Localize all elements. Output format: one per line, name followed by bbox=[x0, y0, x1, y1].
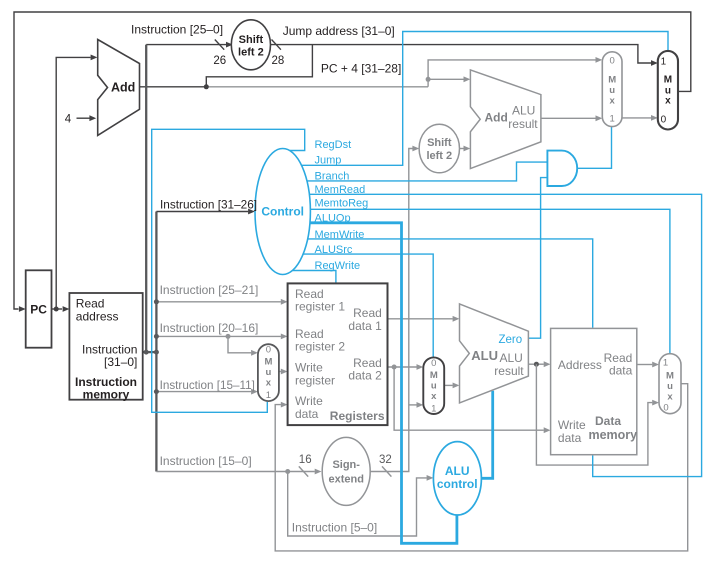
svg-text:extend: extend bbox=[328, 474, 363, 486]
svg-text:0: 0 bbox=[661, 114, 667, 125]
svg-text:address: address bbox=[76, 309, 119, 323]
svg-text:1: 1 bbox=[663, 358, 668, 369]
svg-text:ALU: ALU bbox=[471, 348, 498, 363]
wire write-back from MemtoReg mux output to registers write data bbox=[275, 384, 688, 551]
svg-text:ALU: ALU bbox=[512, 103, 535, 117]
svg-text:MemtoReg: MemtoReg bbox=[315, 198, 369, 210]
svg-text:Shift: Shift bbox=[427, 137, 452, 149]
wire sign-extend output to ALUSrc mux and shift-left-2 bbox=[370, 149, 412, 472]
bit-width slash 28 bbox=[272, 40, 281, 50]
svg-text:Branch: Branch bbox=[315, 170, 350, 182]
svg-text:28: 28 bbox=[272, 55, 285, 67]
svg-text:Instruction [5–0]: Instruction [5–0] bbox=[292, 521, 377, 535]
mux MemtoReg (1/0) bbox=[659, 354, 681, 414]
wire instruction [15-11] into RegDst mux input 1 bbox=[156, 391, 251, 393]
svg-text:ALU: ALU bbox=[500, 351, 523, 365]
wire instruction [25-0] from bus to shift-left-2 bbox=[146, 44, 232, 46]
svg-text:26: 26 bbox=[213, 55, 226, 67]
svg-text:Instruction [15–0]: Instruction [15–0] bbox=[160, 454, 252, 468]
wire MemWrite signal from Control to data memory bbox=[306, 239, 593, 328]
svg-text:M: M bbox=[264, 356, 272, 367]
svg-text:x: x bbox=[266, 377, 272, 388]
svg-text:data: data bbox=[295, 407, 319, 421]
wire PC output to instruction memory read address bbox=[52, 308, 63, 310]
svg-text:data 2: data 2 bbox=[348, 369, 382, 383]
wire instruction bus vertical B carrying instruction fields bbox=[155, 212, 157, 472]
svg-text:32: 32 bbox=[379, 454, 392, 466]
svg-text:ALUOp: ALUOp bbox=[315, 212, 351, 224]
svg-text:register 2: register 2 bbox=[295, 340, 345, 354]
mux RegDst (0/1) bbox=[258, 344, 279, 401]
node instruction output junctions bbox=[144, 350, 149, 355]
svg-text:M: M bbox=[664, 75, 672, 86]
svg-text:data: data bbox=[558, 431, 582, 445]
svg-text:MemWrite: MemWrite bbox=[315, 229, 365, 241]
wire instruction bus vertical A carrying instruction [25-0] bbox=[145, 45, 147, 353]
wire instruction [20-16] branch into RegDst mux input 0 bbox=[228, 336, 251, 352]
svg-text:data: data bbox=[609, 364, 633, 378]
svg-text:left 2: left 2 bbox=[426, 150, 452, 162]
wire PC+4 into branch adder top input bbox=[428, 78, 463, 80]
node instruction [15-0] junction for [5-0] branch bbox=[285, 469, 290, 474]
bit-width slash 16 bbox=[299, 466, 308, 476]
wire PC+4 [31-28] tap up to jump address line bbox=[206, 45, 312, 87]
svg-text:1: 1 bbox=[266, 390, 271, 401]
svg-text:u: u bbox=[609, 85, 615, 96]
svg-text:Instruction [15–11]: Instruction [15–11] bbox=[160, 379, 255, 392]
svg-text:Add: Add bbox=[111, 80, 135, 94]
svg-text:Instruction [25–0]: Instruction [25–0] bbox=[131, 23, 223, 37]
ALU control unit bbox=[433, 442, 481, 515]
svg-text:M: M bbox=[666, 370, 674, 381]
shift left 2 unit (jump) bbox=[231, 20, 270, 70]
svg-text:ALUSrc: ALUSrc bbox=[315, 244, 353, 256]
mux branch (0/1) bbox=[602, 52, 622, 127]
wire sign-extend branch into ALUSrc mux input 1 bbox=[409, 404, 417, 406]
shift left 2 unit (branch) bbox=[419, 124, 459, 173]
svg-text:control: control bbox=[437, 477, 478, 491]
wire instruction [25-21] to read register 1 bbox=[156, 301, 281, 303]
svg-text:result: result bbox=[508, 117, 538, 131]
wire PC feedback loop from jump mux output around top-left into PC bbox=[14, 12, 691, 309]
svg-text:PC: PC bbox=[30, 303, 47, 317]
svg-text:Data: Data bbox=[595, 414, 621, 428]
wire Add output PC+4 line bbox=[140, 86, 207, 88]
wire shift-left-2 output into branch adder bottom input bbox=[459, 148, 463, 150]
wire branch mux output into jump mux input 0 bbox=[622, 117, 651, 119]
svg-text:RegDst: RegDst bbox=[315, 139, 352, 151]
node PC+4 branch junction bbox=[426, 77, 431, 82]
wire RegDst signal from Control to RegDst mux bbox=[152, 129, 305, 412]
svg-text:u: u bbox=[667, 381, 673, 392]
wire jump address [31-0] from shift-left-2 to jump mux input 1 bbox=[270, 45, 651, 63]
wire PC+4 gray segment up to branch mux input 0 bbox=[428, 60, 595, 87]
block data memory bbox=[551, 328, 637, 454]
svg-text:Jump address [31–0]: Jump address [31–0] bbox=[283, 24, 395, 38]
svg-text:memory: memory bbox=[588, 428, 637, 442]
wire instruction [15-0] to sign extend bbox=[156, 471, 314, 473]
svg-text:0: 0 bbox=[610, 56, 615, 67]
wire ALU result into data memory address bbox=[528, 363, 543, 365]
svg-text:PC + 4 [31–28]: PC + 4 [31–28] bbox=[321, 62, 401, 76]
adder Add (PC+4) bbox=[98, 40, 140, 136]
svg-text:Shift: Shift bbox=[239, 34, 264, 46]
bit-width slash 26 bbox=[215, 40, 224, 50]
svg-text:x: x bbox=[431, 391, 437, 402]
wire ALUSrc signal from Control to ALUSrc mux select bbox=[301, 254, 433, 357]
svg-text:1: 1 bbox=[661, 57, 667, 68]
svg-text:x: x bbox=[667, 391, 673, 402]
svg-text:register: register bbox=[295, 373, 335, 387]
svg-text:data 1: data 1 bbox=[348, 319, 382, 333]
register PC bbox=[26, 270, 52, 347]
AND gate branch bbox=[547, 151, 577, 186]
wire read data 1 into ALU top input bbox=[388, 318, 453, 320]
svg-text:M: M bbox=[608, 75, 616, 86]
block instruction memory bbox=[69, 293, 142, 400]
wire ALU result branch under data memory into MemtoReg mux input 0 bbox=[536, 364, 652, 465]
svg-text:Control: Control bbox=[261, 205, 304, 219]
block registers bbox=[288, 283, 388, 425]
wire read data 2 branch to data memory write data bbox=[394, 367, 544, 430]
svg-text:16: 16 bbox=[299, 454, 312, 466]
sign extend unit bbox=[322, 437, 370, 505]
svg-text:Instruction [25–21]: Instruction [25–21] bbox=[160, 283, 259, 297]
wire AND gate output to branch mux select bbox=[577, 126, 611, 168]
wire Branch signal from Control to AND gate bbox=[305, 162, 547, 181]
node PC output junction bbox=[54, 307, 59, 312]
svg-text:u: u bbox=[431, 381, 437, 392]
svg-text:x: x bbox=[665, 96, 671, 107]
svg-text:memory: memory bbox=[83, 388, 130, 402]
svg-text:Registers: Registers bbox=[330, 409, 385, 423]
svg-text:1: 1 bbox=[610, 114, 615, 125]
svg-text:u: u bbox=[265, 367, 271, 378]
svg-text:[31–0]: [31–0] bbox=[104, 355, 137, 369]
svg-text:result: result bbox=[494, 364, 524, 378]
bit-width slash 32 bbox=[382, 466, 391, 476]
svg-text:1: 1 bbox=[431, 403, 436, 414]
svg-text:Add: Add bbox=[485, 111, 508, 125]
wire RegDst mux output to write register bbox=[279, 371, 281, 373]
wire MemRead signal from Control to data memory bbox=[308, 194, 702, 476]
svg-text:Instruction [20–16]: Instruction [20–16] bbox=[160, 321, 259, 335]
adder branch Add bbox=[470, 70, 541, 169]
wire Jump signal from Control to jump mux select bbox=[299, 32, 668, 166]
svg-text:0: 0 bbox=[266, 344, 271, 355]
svg-text:Jump: Jump bbox=[315, 154, 342, 166]
wire read data 2 into ALUSrc mux input 0 bbox=[388, 366, 417, 368]
svg-text:Read: Read bbox=[353, 306, 382, 320]
node read data 2 junction bbox=[392, 365, 397, 370]
svg-text:RegWrite: RegWrite bbox=[315, 260, 361, 272]
svg-text:Instruction [31–26]: Instruction [31–26] bbox=[160, 197, 257, 211]
wire RegWrite signal from Control to registers bbox=[291, 271, 336, 283]
wire instruction [20-16] to read register 2 bbox=[156, 335, 281, 337]
wire branch adder ALU result into branch mux input 1 bbox=[541, 117, 596, 119]
node ALU result junction bbox=[534, 362, 539, 367]
svg-text:left 2: left 2 bbox=[238, 46, 264, 58]
wire PC output up to Add (PC+4) top input bbox=[56, 57, 90, 309]
svg-text:Zero: Zero bbox=[499, 334, 523, 346]
svg-text:MemRead: MemRead bbox=[315, 184, 366, 196]
mux ALUSrc (0/1) bbox=[423, 357, 444, 414]
control unit bbox=[255, 149, 310, 275]
svg-text:ALU: ALU bbox=[445, 464, 470, 478]
wire data memory read data into MemtoReg mux input 1 bbox=[637, 364, 653, 366]
wire ALUSrc mux output into ALU bottom input bbox=[444, 384, 453, 386]
svg-text:x: x bbox=[610, 96, 616, 107]
svg-text:0: 0 bbox=[663, 402, 668, 413]
svg-text:M: M bbox=[430, 370, 438, 381]
wire instruction [5-0] into ALU control bbox=[288, 472, 427, 537]
wire instruction [31-26] into Control bbox=[156, 211, 248, 213]
mux jump (1/0) bbox=[658, 51, 678, 130]
wire instruction memory output to bus bbox=[143, 351, 157, 353]
svg-text:Address: Address bbox=[558, 358, 602, 372]
node instruction [20-16] junction to RegDst mux bbox=[226, 334, 231, 339]
wire ALUOp signal from Control to ALU control bbox=[309, 223, 457, 544]
svg-text:4: 4 bbox=[65, 114, 72, 126]
svg-text:Sign-: Sign- bbox=[332, 459, 360, 471]
wire MemtoReg signal from Control to MemtoReg mux select bbox=[310, 209, 670, 353]
node PC+4 junction for jump-address tap bbox=[204, 84, 209, 89]
ALU main bbox=[460, 304, 529, 403]
wire ALU control output into ALU bbox=[481, 391, 493, 479]
wire Zero output from ALU to AND gate bbox=[528, 178, 546, 339]
svg-text:register 1: register 1 bbox=[295, 300, 345, 314]
svg-text:0: 0 bbox=[431, 358, 436, 369]
